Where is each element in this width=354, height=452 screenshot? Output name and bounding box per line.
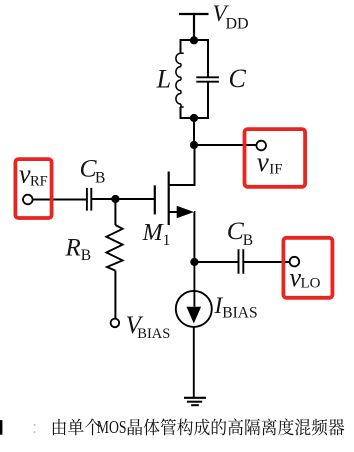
terminal circle v_LO: [290, 257, 300, 267]
svg-text:BIAS: BIAS: [222, 305, 257, 322]
wire from RF circle to CB: [33, 199, 87, 201]
svg-text:B: B: [95, 169, 105, 186]
capacitor CB LO plates: [239, 249, 244, 274]
caption left edge mark: [0, 420, 2, 435]
svg-text:MOS: MOS: [97, 417, 127, 437]
wire into current source: [193, 262, 195, 307]
capacitor C plates: [196, 77, 219, 81]
transistor M1 gate bar: [154, 185, 156, 214]
current source IBIAS arrow: [187, 307, 202, 324]
svg-text:LO: LO: [301, 276, 321, 292]
caption text 晶体管构成的高隔离度混频器: [128, 419, 142, 435]
node dot drain/IF: [190, 141, 198, 149]
svg-text:1: 1: [163, 232, 171, 249]
node dot top tank: [190, 36, 198, 44]
svg-text:B: B: [243, 232, 253, 249]
wire RB to VBIAS terminal: [114, 271, 116, 319]
svg-text:v: v: [257, 147, 269, 177]
wire CB to LO circle: [243, 261, 289, 263]
svg-text:RF: RF: [30, 173, 48, 189]
wire drain of M1: [169, 145, 195, 185]
wire source node to CB LO: [194, 261, 238, 263]
caption text 由单个: [53, 419, 66, 436]
node dot tank bottom: [190, 114, 198, 122]
port box v_IF: [245, 129, 306, 187]
transistor M1 source arrow: [177, 206, 194, 218]
inductor L: [176, 53, 184, 107]
current source IBIAS circle: [176, 291, 212, 327]
svg-text:B: B: [81, 247, 91, 264]
terminal circle v_RF: [23, 195, 33, 205]
svg-text:L: L: [156, 65, 171, 94]
wire source of M1: [169, 212, 195, 262]
ground: [184, 397, 206, 399]
svg-text:R: R: [65, 235, 81, 262]
port box v_RF: [15, 159, 51, 218]
node dot gate: [111, 195, 119, 203]
node dot source: [190, 258, 198, 266]
terminal circle VBIAS: [111, 319, 120, 328]
power rail VDD: [179, 14, 209, 40]
wire to IF port: [194, 144, 256, 146]
svg-text:M: M: [142, 220, 165, 246]
wire gate node down to RB: [114, 199, 116, 225]
port box v_LO: [283, 238, 332, 298]
wire gate from CB: [91, 198, 155, 200]
transistor M1 channel bar: [168, 172, 170, 226]
wire current source to ground: [193, 327, 195, 398]
wire tank bottom to drain node: [193, 118, 195, 145]
capacitor CB input plates: [87, 188, 91, 211]
svg-text:BIAS: BIAS: [137, 326, 170, 342]
terminal circle v_IF: [256, 141, 266, 151]
wire tank top split: [181, 40, 209, 118]
resistor RB: [106, 225, 122, 271]
caption colon: [34, 424, 36, 434]
svg-text:C: C: [229, 64, 247, 93]
svg-text:IF: IF: [269, 162, 282, 178]
svg-text:DD: DD: [226, 16, 249, 33]
